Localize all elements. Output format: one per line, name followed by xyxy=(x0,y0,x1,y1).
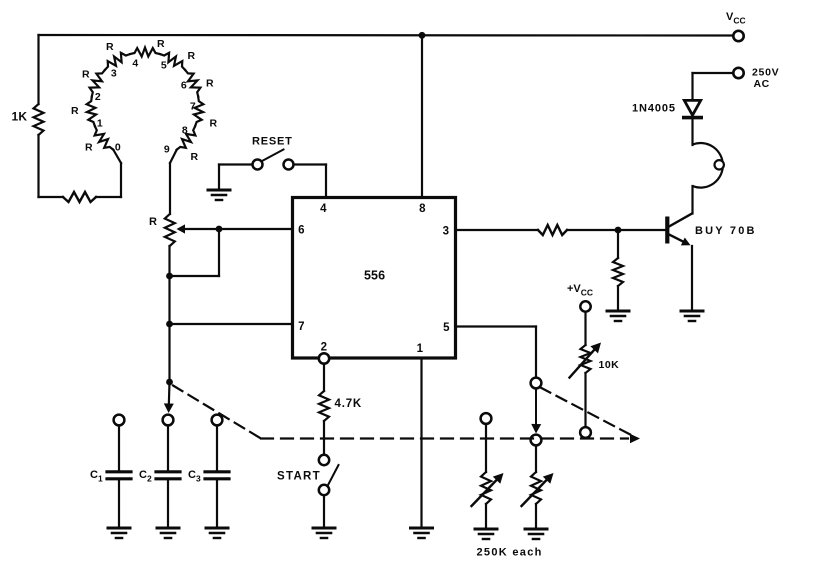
potentiometer R (timing) xyxy=(165,214,175,246)
svg-text:5: 5 xyxy=(443,322,450,334)
node 5 (rotary position label) xyxy=(161,60,167,72)
svg-text:R: R xyxy=(71,105,79,117)
resistor R (ring segment 3-4) xyxy=(105,53,130,70)
resistor R (ring segment 8-9) xyxy=(177,126,196,150)
value label R (ring segment 1-2) xyxy=(71,105,79,117)
svg-text:6: 6 xyxy=(181,80,187,92)
wire: emitter to ground xyxy=(691,246,693,311)
wire: bottom-left run to rotary position 0 xyxy=(39,150,122,197)
resistor (base pulldown) xyxy=(613,258,623,286)
resistor R (ring segment 0-1) xyxy=(95,126,114,150)
pin 1 xyxy=(417,343,424,355)
svg-text:7: 7 xyxy=(190,101,196,113)
label RESET xyxy=(252,136,293,148)
wire: rotary position 9 down to pot xyxy=(170,150,177,214)
value label C2 xyxy=(139,469,152,484)
resistor (unlabeled, bottom-left) xyxy=(63,192,96,202)
capacitor C2 xyxy=(156,415,180,528)
svg-text:8: 8 xyxy=(182,125,188,137)
arrow: wiper selects C2 xyxy=(164,403,174,413)
resistor R (ring segment 2-3) xyxy=(90,70,105,97)
resistor (base series) xyxy=(538,225,567,235)
resistor R (ring segment 7-8) xyxy=(194,97,204,127)
ground (base pulldown) xyxy=(607,311,629,321)
node 2 (rotary position label) xyxy=(95,91,101,103)
wire: pin 8 from top rail xyxy=(421,35,423,198)
resistor 1K xyxy=(34,104,44,135)
wire: START to ground xyxy=(323,496,325,529)
ground (C3) xyxy=(206,528,228,538)
svg-text:AC: AC xyxy=(754,78,770,90)
svg-text:10K: 10K xyxy=(599,359,620,371)
wiper arrow into pot xyxy=(177,224,220,233)
node 8 (rotary position label) xyxy=(182,125,188,137)
resistor 4.7K xyxy=(319,391,329,421)
diode D1 1N4005 xyxy=(684,100,701,117)
node: junction pot/pin6 feedback xyxy=(216,226,223,233)
value label 10K xyxy=(599,359,620,371)
wire: 250K mid leg xyxy=(535,446,537,529)
svg-text:556: 556 xyxy=(364,269,385,283)
svg-text:R: R xyxy=(191,151,199,163)
wire: pin 3 output xyxy=(456,229,666,231)
value label 1N4005 xyxy=(632,103,676,115)
svg-text:1: 1 xyxy=(417,343,424,355)
label BUY 70B xyxy=(695,225,757,237)
ground (pin 1) xyxy=(411,528,433,538)
ground (C1) xyxy=(108,528,130,538)
svg-text:R: R xyxy=(157,38,165,50)
switch contact (pin 5 wiper) xyxy=(531,378,542,389)
switch contact (250K mid top) xyxy=(531,435,542,446)
svg-text:7: 7 xyxy=(298,321,305,333)
terminal 250V AC xyxy=(733,67,779,91)
value label R (ring segment 3-4) xyxy=(106,41,114,53)
wire: RESET to pin 4 xyxy=(294,165,327,198)
resistor R (ring segment 5-6) xyxy=(160,53,185,70)
node: junction at main column y276 xyxy=(166,273,173,280)
value label R (ring segment 6-7) xyxy=(206,78,214,90)
svg-text:5: 5 xyxy=(161,60,167,72)
node 0 (rotary position label) xyxy=(115,142,121,154)
resistor R (ring segment 1-2) xyxy=(87,97,97,127)
wire: lamp top to diode xyxy=(691,119,693,145)
gang link (dashed) left diagonal xyxy=(173,386,261,439)
ground (250K left) xyxy=(475,529,497,539)
svg-text:R: R xyxy=(82,69,90,81)
terminal pin 2 (open circle) xyxy=(319,353,329,363)
wire: pot column down to C2 selector xyxy=(168,246,171,406)
svg-text:9: 9 xyxy=(164,144,170,156)
wire: +Vcc down to 10K xyxy=(584,312,586,427)
svg-text:250V: 250V xyxy=(752,67,779,79)
terminal Vcc xyxy=(726,11,746,41)
value label C1 xyxy=(90,469,103,484)
wire: pin 7 horizontal xyxy=(170,323,293,325)
svg-text:BUY 70B: BUY 70B xyxy=(695,225,757,237)
transistor Q1 BUY 70B xyxy=(665,214,692,246)
svg-text:250K each: 250K each xyxy=(477,547,543,559)
gang link arrow xyxy=(630,434,640,444)
svg-text:8: 8 xyxy=(419,203,426,215)
pin 7 xyxy=(298,321,305,333)
op-amp/timer IC U1 (556) xyxy=(293,198,456,359)
wire: 250K left leg xyxy=(485,424,487,528)
value label 1K xyxy=(12,110,28,124)
switch RESET xyxy=(253,150,294,170)
svg-text:4: 4 xyxy=(320,203,327,215)
capacitor C3 xyxy=(205,415,229,528)
capacitor C1 xyxy=(107,415,131,528)
resistor R (ring segment 6-7) xyxy=(185,70,200,97)
variable resistor 10K xyxy=(570,343,602,378)
wire: pin 1 to ground xyxy=(420,358,422,528)
pin 8 xyxy=(419,203,426,215)
svg-text:3: 3 xyxy=(111,68,117,80)
value label R (ring segment 7-8) xyxy=(210,118,218,130)
wire: divider leg down xyxy=(617,230,619,311)
node 4 (rotary position label) xyxy=(132,58,138,70)
wire: pin 5 out xyxy=(456,327,537,378)
pin 4 xyxy=(320,203,327,215)
svg-text:R: R xyxy=(106,41,114,53)
svg-text:6: 6 xyxy=(298,225,305,237)
value label R (ring segment 4-5) xyxy=(157,38,165,50)
wire: diode to 250V terminal xyxy=(693,73,734,100)
node 9 (rotary position label) xyxy=(164,144,170,156)
svg-text:START: START xyxy=(277,471,321,483)
node: junction top rail to pin 8 xyxy=(419,32,426,39)
wire: RESET ground lead xyxy=(219,165,253,191)
svg-text:0: 0 xyxy=(115,142,121,154)
svg-text:1K: 1K xyxy=(12,110,28,124)
svg-text:3: 3 xyxy=(443,226,450,238)
value label R (ring segment 5-6) xyxy=(188,50,196,62)
switch START xyxy=(319,455,339,495)
ground (RESET switch) xyxy=(208,190,230,200)
node 1 (rotary position label) xyxy=(97,118,103,130)
ground (emitter) xyxy=(681,311,703,321)
variable resistor 250K (mid) xyxy=(522,472,554,506)
wire: collector up to lamp xyxy=(691,186,693,214)
svg-text:R: R xyxy=(188,50,196,62)
svg-text:R: R xyxy=(210,118,218,130)
svg-text:R: R xyxy=(206,78,214,90)
node 7 (rotary position label) xyxy=(190,101,196,113)
node: junction at main column y382 (gang pickoff) xyxy=(166,379,173,386)
svg-text:1N4005: 1N4005 xyxy=(632,103,676,115)
resistor R (ring segment 4-5) xyxy=(130,48,160,57)
value label R (ring segment 2-3) xyxy=(82,69,90,81)
switch contact (250K left top) xyxy=(481,413,492,424)
value label C3 xyxy=(188,469,201,484)
lamp / horn load xyxy=(693,143,724,188)
wire: feedback jog (pin6 column down/left) xyxy=(170,229,220,276)
gang link (dashed) horizontal xyxy=(261,437,628,439)
svg-text:RESET: RESET xyxy=(252,136,293,148)
ground (START) xyxy=(313,528,335,538)
value label 4.7K xyxy=(335,398,363,410)
value label R (ring segment 0-1) xyxy=(85,142,93,154)
switch contact (10K bottom) xyxy=(580,427,591,438)
wire: top Vcc rail xyxy=(39,34,734,37)
wire: left vertical from top rail xyxy=(37,35,39,197)
svg-text:2: 2 xyxy=(321,342,328,354)
ground (250K mid) xyxy=(525,529,547,539)
svg-text:R: R xyxy=(85,142,93,154)
svg-text:4.7K: 4.7K xyxy=(335,398,363,410)
svg-text:4: 4 xyxy=(132,58,138,70)
wire: pin 6 horizontal xyxy=(219,228,293,230)
node: junction at main column y324 xyxy=(166,321,173,328)
gang link (dashed) right diagonal xyxy=(541,388,634,437)
node 3 (rotary position label) xyxy=(111,68,117,80)
arrow: wiper to 250K selector xyxy=(531,389,541,434)
wire: pin 2 down xyxy=(323,364,325,455)
pin 5 xyxy=(443,322,450,334)
pin 6 xyxy=(298,225,305,237)
ground (C2) xyxy=(157,528,179,538)
value label R (ring segment 8-9) xyxy=(191,151,199,163)
pin 3 xyxy=(443,226,450,238)
svg-text:1: 1 xyxy=(97,118,103,130)
value label R (pot) xyxy=(149,216,157,228)
svg-text:R: R xyxy=(149,216,157,228)
label START xyxy=(277,471,321,483)
node: junction base divider xyxy=(615,227,622,234)
variable resistor 250K (left) xyxy=(472,472,504,506)
terminal +Vcc xyxy=(567,283,593,312)
pin 2 xyxy=(321,342,328,354)
node 6 (rotary position label) xyxy=(181,80,187,92)
svg-text:2: 2 xyxy=(95,91,101,103)
value label 250K each xyxy=(477,547,543,559)
